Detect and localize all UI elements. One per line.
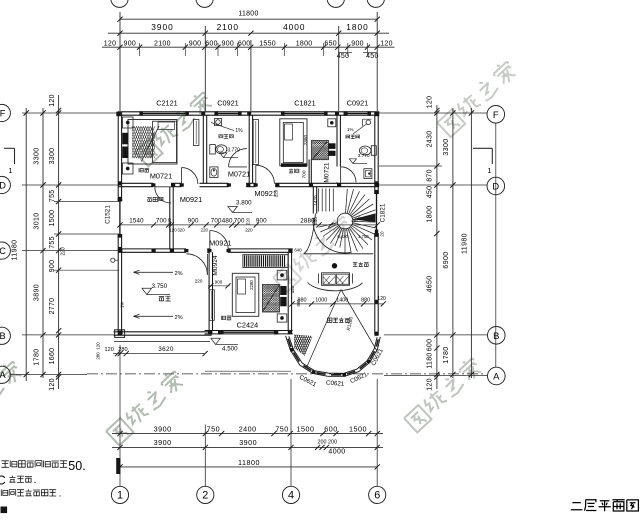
svg-text:1550: 1550	[259, 41, 276, 48]
svg-text:D: D	[492, 181, 499, 192]
svg-text:120: 120	[427, 378, 434, 391]
svg-text:A: A	[493, 371, 500, 382]
svg-text:1800: 1800	[427, 206, 434, 223]
svg-text:1420: 1420	[313, 195, 318, 206]
svg-text:D: D	[0, 180, 6, 190]
svg-text:3.770: 3.770	[227, 148, 240, 154]
svg-text:3620: 3620	[158, 346, 174, 353]
label yimaojian	[147, 197, 163, 201]
svg-text:1500: 1500	[49, 210, 56, 227]
svg-text:3890: 3890	[34, 284, 41, 301]
right dim column fine	[436, 105, 438, 389]
svg-text:480: 480	[222, 218, 233, 225]
window C1521 left wall	[119, 202, 121, 235]
svg-text:200: 200	[318, 440, 327, 446]
svg-text:F: F	[0, 108, 6, 118]
watermark	[0, 359, 25, 437]
top dimension row 3900/2100/4000/1800	[108, 32, 389, 34]
svg-text:440: 440	[290, 285, 295, 293]
svg-text:2100: 2100	[217, 22, 239, 32]
svg-text:900: 900	[189, 41, 202, 48]
sofa lounge	[322, 273, 350, 286]
svg-text:1800: 1800	[296, 41, 313, 48]
svg-text:3900: 3900	[154, 438, 172, 447]
door M0921 corridor	[209, 231, 211, 249]
left grid circle F	[0, 104, 10, 121]
svg-text:C2424: C2424	[237, 320, 259, 329]
svg-text:C0621: C0621	[370, 347, 385, 367]
window C1821 top wall (master)	[285, 113, 325, 115]
svg-text:11980: 11980	[12, 240, 19, 261]
svg-text:C1821: C1821	[379, 203, 386, 222]
exterior wall left (grid 1)	[117, 112, 119, 202]
svg-text:700: 700	[156, 218, 167, 225]
svg-text:F: F	[493, 109, 499, 120]
svg-text:1: 1	[487, 166, 491, 175]
svg-text:120: 120	[49, 94, 56, 107]
master nightstand	[328, 119, 336, 127]
label woshi	[139, 168, 149, 172]
svg-text:3900: 3900	[239, 438, 257, 447]
lounge column dot	[332, 263, 337, 268]
bedroom3 wardrobe striped band	[243, 255, 288, 268]
svg-text:M0921: M0921	[209, 239, 231, 248]
svg-text:1%: 1%	[235, 128, 243, 134]
svg-text:11800: 11800	[238, 11, 258, 18]
bedroom3 door dim	[208, 285, 230, 287]
svg-text:600: 600	[427, 339, 434, 352]
svg-text:750: 750	[275, 425, 289, 434]
bedroom1 nightstands	[123, 117, 134, 128]
bottom dimension row 3900/3900/4000	[112, 446, 383, 448]
bath2 washbasin	[364, 169, 372, 179]
bed 2 (master, vertical)	[280, 119, 307, 166]
wall grid 2 (bedroom/bath)	[202, 115, 204, 183]
svg-text:220: 220	[195, 279, 203, 284]
watermark	[437, 59, 519, 137]
title: second floor plan (er ceng ping mian tu)	[571, 500, 639, 512]
window C0921 top wall (bath2)	[347, 113, 367, 115]
svg-text:220: 220	[61, 247, 67, 256]
stair enclosure wall	[312, 187, 314, 214]
svg-text:3300: 3300	[443, 138, 450, 155]
watermark	[273, 214, 355, 292]
svg-text:600: 600	[238, 41, 251, 48]
svg-text:600: 600	[324, 425, 338, 434]
svg-text:A: A	[0, 370, 7, 380]
bed3 cabinets black	[280, 286, 286, 295]
svg-text:4.500: 4.500	[222, 346, 238, 353]
svg-text:C2121: C2121	[156, 98, 178, 107]
watermark	[135, 90, 215, 167]
svg-text:1500: 1500	[349, 425, 367, 434]
svg-text:M0924: M0924	[212, 255, 219, 275]
left grid extension lines	[22, 112, 118, 114]
svg-text:C: C	[0, 472, 6, 487]
svg-text:2400: 2400	[239, 425, 257, 434]
svg-text:2100: 2100	[154, 41, 171, 48]
svg-text:900: 900	[215, 279, 223, 284]
svg-text:3.750: 3.750	[152, 283, 168, 290]
lounge curved edge	[308, 283, 363, 291]
left dim column fine	[58, 95, 60, 389]
svg-text:B: B	[0, 331, 6, 341]
svg-text:120: 120	[169, 227, 177, 232]
window C2424 bedroom3 bottom wall	[222, 331, 274, 333]
bottom grid circle 6	[369, 486, 386, 503]
spiral stair	[337, 213, 353, 229]
exterior wall right (grid 6)	[374, 112, 376, 194]
bay window glazing marks	[288, 339, 291, 347]
wall grid 5 (master/bath2)	[336, 115, 338, 166]
svg-text:880: 880	[296, 299, 301, 307]
left grid circle C	[0, 242, 10, 259]
note1	[1, 461, 67, 468]
top dimension row fine	[102, 46, 395, 48]
svg-text:3.800: 3.800	[236, 199, 252, 206]
master dresser hatch	[312, 141, 329, 160]
master stub wall	[308, 160, 310, 184]
terrace parapet bottom wall	[114, 331, 212, 333]
svg-text:M0921: M0921	[255, 189, 277, 198]
svg-text:2280: 2280	[249, 280, 254, 290]
svg-text:1660: 1660	[49, 348, 56, 365]
bedroom3 right wall (grid 4)	[287, 252, 289, 330]
label xiuxishi	[353, 262, 369, 267]
terrace slope arrow 1	[134, 271, 174, 273]
svg-text:755: 755	[49, 236, 56, 249]
label weishengjian 2	[346, 135, 360, 139]
svg-text:C0621: C0621	[298, 374, 318, 389]
svg-text:700: 700	[211, 218, 222, 225]
svg-text:900: 900	[124, 41, 137, 48]
svg-text:3300: 3300	[34, 147, 41, 164]
svg-text:4: 4	[288, 490, 294, 502]
svg-text:120: 120	[380, 41, 393, 48]
watermark	[106, 369, 186, 446]
svg-text:C0921: C0921	[217, 98, 239, 107]
bed3 nightstands	[277, 270, 287, 280]
svg-text:4650: 4650	[427, 276, 434, 293]
right grid circle B	[488, 327, 506, 345]
svg-text:450: 450	[427, 186, 434, 199]
svg-text:C1821: C1821	[294, 98, 316, 107]
bath1 shower	[215, 119, 222, 126]
svg-text:1500: 1500	[297, 425, 315, 434]
terrace slope arrow 2	[134, 315, 174, 317]
svg-text:120: 120	[96, 342, 101, 350]
svg-text:1000: 1000	[315, 298, 327, 304]
window C1821 right wall	[376, 194, 378, 233]
top dimension row 11800	[120, 18, 378, 20]
svg-text:1780: 1780	[34, 348, 41, 365]
left grid circle A	[0, 366, 10, 383]
bedroom3 left wall	[208, 252, 210, 330]
svg-text:1%: 1%	[119, 302, 124, 308]
svg-text:1%: 1%	[347, 127, 354, 132]
wall junction blocks	[116, 112, 121, 117]
svg-text:C: C	[0, 246, 6, 256]
right grid bubble connector	[495, 123, 497, 367]
svg-text:900: 900	[222, 41, 235, 48]
exterior wall top (grid F)	[118, 111, 379, 113]
left grid circle D	[0, 176, 10, 193]
note2	[9, 476, 32, 483]
svg-text:.: .	[34, 475, 37, 486]
wall grid 3 (bath/master)	[248, 115, 250, 183]
svg-text:M0721: M0721	[324, 162, 331, 182]
svg-text:755: 755	[49, 190, 56, 203]
svg-text:2%: 2%	[174, 271, 182, 277]
svg-text:3300: 3300	[49, 148, 56, 165]
grid line A dash-dot chain	[87, 373, 485, 375]
label weishengjian	[219, 135, 233, 139]
bottom dimension row 3900/750/2400/750/1500/600/1500	[112, 433, 383, 435]
svg-text:M0721: M0721	[228, 170, 250, 179]
svg-text:3.770: 3.770	[358, 153, 370, 159]
svg-text:B: B	[493, 330, 499, 341]
svg-text:2: 2	[202, 490, 208, 502]
label zhuwo	[289, 169, 299, 174]
bath2 shower	[366, 120, 371, 125]
svg-text:C0921: C0921	[347, 98, 369, 107]
svg-text:600: 600	[205, 41, 218, 48]
bottom grid circle 1	[111, 486, 128, 503]
bottom dimension row 11800	[120, 466, 378, 468]
svg-text:120: 120	[167, 217, 172, 225]
svg-text:900: 900	[256, 218, 267, 225]
svg-text:3900: 3900	[151, 22, 173, 32]
closet right wall	[169, 187, 171, 249]
bottom grid circle 4	[282, 486, 299, 503]
svg-text:640: 640	[294, 248, 302, 253]
bed3 pillow hatch	[263, 285, 280, 313]
svg-text:320: 320	[177, 227, 185, 232]
svg-text:1.750: 1.750	[358, 234, 369, 239]
bedroom1 radiator blocks	[122, 133, 128, 145]
door M0721 bath2	[340, 167, 342, 183]
line under bedroom3	[205, 370, 291, 372]
svg-text:2380: 2380	[303, 134, 308, 145]
svg-text:870: 870	[427, 169, 434, 182]
svg-text:120: 120	[105, 347, 114, 353]
svg-text:120: 120	[377, 296, 386, 302]
right grid circle F	[487, 106, 505, 124]
svg-text:1800: 1800	[346, 22, 368, 32]
svg-text:11980: 11980	[462, 233, 469, 254]
svg-text:1780: 1780	[443, 346, 450, 363]
svg-text:120: 120	[104, 41, 117, 48]
window C2121 top wall	[143, 113, 185, 115]
bay window curved wall	[286, 336, 381, 376]
svg-text:3010: 3010	[34, 212, 41, 229]
exterior wall grid B under bedroom	[205, 330, 293, 332]
svg-text:880: 880	[361, 298, 370, 304]
bay joint blocks	[290, 348, 294, 352]
svg-text:120: 120	[427, 96, 434, 109]
watermark	[404, 356, 484, 433]
svg-text:1180: 1180	[427, 352, 434, 368]
door M0721 bath1	[229, 166, 247, 168]
bedroom3 left niche	[209, 290, 214, 321]
lounge dim row	[292, 303, 384, 305]
right dim column 11980	[470, 108, 472, 378]
svg-text:C0621: C0621	[326, 380, 345, 388]
right section mark 1	[473, 147, 492, 149]
left dim column 3300/3010/3890/1780	[42, 108, 44, 378]
left section mark 1	[4, 147, 15, 149]
svg-text:50.: 50.	[68, 459, 85, 473]
svg-text:120: 120	[49, 378, 56, 391]
svg-text:220: 220	[201, 227, 209, 232]
svg-text:750: 750	[207, 425, 221, 434]
svg-text:3900: 3900	[154, 425, 172, 434]
top grid circles (cut)	[111, 0, 128, 7]
stray black bar	[116, 458, 120, 474]
svg-text:280: 280	[96, 352, 101, 360]
bottom grid extension lines	[119, 345, 121, 486]
interior wall grid D	[118, 182, 153, 184]
master left tall pilaster	[253, 120, 258, 165]
svg-text:M0721: M0721	[150, 172, 172, 181]
svg-text:11800: 11800	[238, 458, 260, 467]
svg-text:.: .	[59, 489, 62, 500]
svg-text:200: 200	[328, 440, 337, 446]
svg-text:220: 220	[245, 217, 250, 225]
right grid circle A	[488, 367, 506, 385]
svg-text:2%: 2%	[174, 315, 182, 321]
label woshi3	[221, 316, 231, 320]
bedroom1 wardrobe strip	[194, 120, 199, 146]
svg-text:6.420: 6.420	[337, 234, 348, 239]
rain pipe	[111, 258, 115, 262]
label keting shangkong	[327, 318, 349, 323]
svg-text:4000: 4000	[328, 448, 345, 455]
master foot black bar	[281, 163, 307, 167]
bath1 toilet	[210, 145, 216, 154]
svg-text:6900: 6900	[443, 251, 450, 268]
left dim column 11980	[25, 108, 27, 381]
svg-text:650: 650	[324, 41, 337, 48]
svg-text:220: 220	[245, 227, 253, 232]
bed 3 (bedroom C2424)	[232, 273, 258, 316]
svg-text:2880: 2880	[300, 218, 315, 225]
svg-text:700: 700	[302, 170, 308, 178]
top grid extension lines	[119, 12, 121, 111]
door M0721 bedroom1	[181, 168, 183, 184]
svg-text:C1521: C1521	[104, 205, 111, 224]
svg-text:1: 1	[117, 490, 123, 502]
lounge top railing line	[304, 253, 373, 255]
svg-text:2430: 2430	[427, 131, 434, 148]
note3	[1, 489, 56, 496]
left grid circle B	[0, 327, 10, 344]
door M0921 closet	[155, 186, 171, 188]
svg-text:2770: 2770	[49, 298, 56, 315]
svg-text:20: 20	[379, 231, 384, 237]
right grid extension lines	[379, 112, 487, 114]
bath2 toilet	[359, 146, 371, 155]
note bullet square	[1, 507, 8, 514]
door M0921 master	[255, 165, 257, 184]
svg-text:1540: 1540	[129, 218, 144, 225]
svg-text:4000: 4000	[283, 22, 305, 32]
label lutai	[159, 296, 171, 301]
bed 1 (top-left bedroom)	[128, 120, 177, 165]
svg-text:700: 700	[234, 218, 245, 225]
bath1 washbasin	[210, 167, 218, 178]
master wardrobe black stripes	[328, 143, 335, 149]
window C0921 top wall (bath1)	[218, 113, 238, 115]
svg-text:M0921: M0921	[180, 195, 202, 204]
svg-text:6: 6	[374, 490, 380, 502]
svg-text:280: 280	[118, 347, 127, 353]
svg-text:1: 1	[8, 166, 12, 175]
corridor dim row	[120, 224, 377, 226]
svg-text:900: 900	[351, 41, 364, 48]
right grid circle D	[487, 177, 505, 195]
door M0924 terrace	[206, 254, 208, 275]
right dim column 3300/6900/1780	[452, 108, 454, 378]
svg-text:900: 900	[188, 218, 199, 225]
interior wall grid C	[118, 248, 186, 250]
bottom grid circle 2	[197, 486, 214, 503]
terrace bottom dim	[113, 353, 206, 355]
